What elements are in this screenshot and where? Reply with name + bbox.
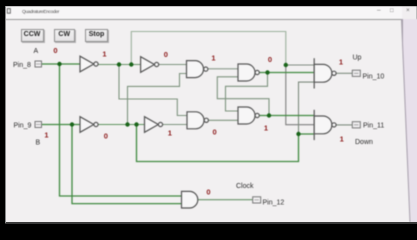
wire clock AND output to Pin_12 (198, 199, 253, 201)
node D1 (284, 63, 288, 67)
svg-text:1: 1 (168, 129, 172, 138)
svg-text:1: 1 (102, 50, 106, 59)
NAND G4 (238, 107, 255, 124)
node J2B (125, 122, 129, 126)
NAND G2 (238, 64, 255, 81)
wire NAND G2 output to Up gate input 2 (259, 72, 314, 74)
wire node D1 to Up gate input 1 (286, 64, 314, 66)
svg-text:Pin_8: Pin_8 (13, 62, 31, 69)
node J3 (129, 62, 133, 66)
node J5 (267, 113, 271, 117)
wire inverter U1 output segment with junctions (98, 64, 140, 66)
node D2 (296, 132, 300, 136)
svg-text:A: A (34, 48, 39, 55)
svg-text:0: 0 (53, 46, 57, 55)
pin connector Pin_12 (253, 197, 261, 203)
wire node D2 up to Up gate input 3 (299, 82, 314, 134)
inverter U2 (channel A second) (141, 57, 155, 73)
pin connector Pin_9 (35, 122, 42, 128)
window right border slanted (402, 19, 411, 222)
inverter U4 (channel B second) (145, 117, 159, 133)
svg-text:Pin_12: Pin_12 (263, 200, 285, 207)
wire Up gate output to Pin_10 (336, 72, 352, 74)
wire net A: Pin_8 to inverter U1 and down to clock AND gate (42, 64, 182, 196)
wire Down gate output to Pin_11 (336, 124, 352, 126)
node J1 (57, 62, 61, 66)
wire node J4 feedback to NAND G4 input 1 (226, 73, 268, 112)
3-input NAND Down gate U6 (313, 110, 315, 140)
svg-text:0: 0 (268, 55, 272, 64)
node J1B (70, 122, 74, 126)
wire NAND G2 input 2 from NAND G4 output (217, 77, 269, 113)
button Stop (85, 29, 108, 42)
wire inverter U4 output to NAND G3 input 2 (163, 124, 187, 126)
svg-text:Pin_9: Pin_9 (14, 122, 32, 129)
svg-text:0: 0 (104, 132, 108, 141)
button CW (54, 29, 76, 42)
inverter U1 (channel A first) (80, 56, 94, 72)
title bar icon (7, 9, 10, 14)
wire node D2 to Down gate input 3 (299, 133, 314, 135)
wire node !A top rail to node D1 (131, 32, 285, 66)
wire inverter U2 output to NAND G1 input 1 (159, 64, 187, 66)
wire node D1 down to Down gate input 2 (286, 65, 314, 125)
svg-text:1: 1 (211, 54, 215, 63)
wire net B: Pin_9 to inverter U3 and down to clock AND gate (42, 125, 182, 204)
svg-text:0: 0 (206, 188, 210, 197)
inverter U3 (channel B first) (80, 117, 94, 133)
svg-text:Pin_11: Pin_11 (363, 123, 384, 130)
pin connector Pin_11 (352, 122, 360, 128)
wire NAND G4 output to Down gate input 1 (260, 115, 314, 117)
pin connector Pin_8 (35, 61, 42, 67)
svg-text:0: 0 (213, 128, 217, 137)
svg-text:Clock: Clock (236, 183, 254, 190)
svg-text:1: 1 (264, 124, 268, 133)
NAND G1 (187, 61, 204, 78)
pin connector Pin_10 (352, 70, 360, 76)
node J3B (134, 122, 138, 126)
wire NAND G1 output to NAND G2 (208, 68, 238, 70)
wire node !A drop to rail y99 into NAND G3 top input (119, 65, 187, 116)
svg-text:Up: Up (353, 55, 362, 62)
button CCW (21, 29, 44, 42)
wire node !B drop to rail y161.5 up to node D2 (137, 125, 299, 162)
3-input NAND Up gate U5 (313, 58, 315, 88)
wire NAND G1 input 2 from rail !B (128, 74, 187, 125)
svg-text:1: 1 (339, 58, 343, 67)
wire NAND G3 output to NAND G4 input 2 (209, 119, 238, 121)
svg-text:Down: Down (355, 139, 373, 146)
AND clock gate U7 (182, 191, 198, 208)
svg-text:B: B (36, 140, 41, 147)
svg-text:Pin_10: Pin_10 (363, 74, 385, 81)
node J4 (265, 70, 269, 74)
svg-text:0: 0 (164, 50, 168, 59)
svg-text:1: 1 (44, 131, 48, 140)
svg-text:1: 1 (340, 135, 344, 144)
node J2 (117, 62, 121, 66)
wire inverter U3 output segment (98, 124, 144, 126)
black frame bars (0, 0, 417, 6)
NAND G3 (187, 112, 204, 129)
